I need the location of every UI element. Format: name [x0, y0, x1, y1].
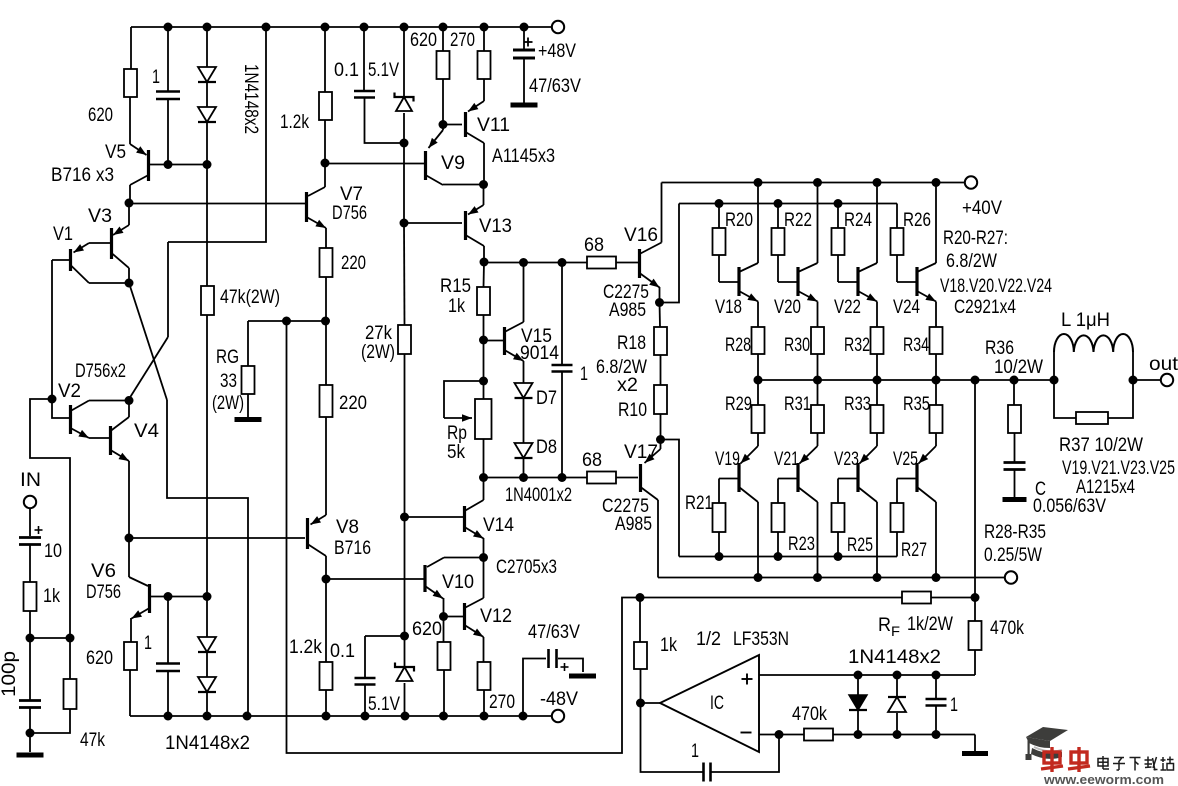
svg-text:V9: V9 — [441, 153, 465, 174]
svg-text:V19: V19 — [715, 449, 740, 470]
wire input node — [30, 637, 70, 639]
transistor V1 — [74, 243, 90, 253]
resistor R33 — [876, 380, 878, 405]
node IC output — [636, 699, 645, 708]
resistor R37 10/2W parallel — [1054, 380, 1076, 418]
svg-text:V25: V25 — [893, 449, 918, 470]
wire +40V rail — [662, 182, 966, 184]
wire feedback RF — [640, 597, 902, 599]
svg-text:1N4001x2: 1N4001x2 — [505, 485, 572, 506]
node V11 base — [439, 120, 448, 129]
node V1/V2 base — [48, 395, 57, 404]
watermark cap icon — [1026, 727, 1069, 760]
resistor 620 V6 emitter — [124, 642, 137, 670]
zener 5.1V bottom — [404, 636, 406, 667]
svg-text:0.25/5W: 0.25/5W — [984, 545, 1042, 566]
svg-text:620: 620 — [88, 105, 113, 126]
wire bias column lower — [404, 517, 406, 636]
transistor V16 — [638, 249, 641, 278]
svg-text:R35: R35 — [903, 394, 930, 415]
node base rail x719 — [715, 199, 724, 208]
transistor V5 — [130, 144, 147, 155]
node -48V rail x207 — [203, 712, 212, 721]
wire IC +input — [759, 674, 975, 676]
svg-text:R15: R15 — [440, 276, 471, 297]
svg-text:5.1V: 5.1V — [368, 60, 399, 81]
svg-text:R32: R32 — [844, 335, 870, 356]
node x562 y262 — [558, 258, 567, 267]
node +40V rail x877 — [873, 178, 882, 187]
wire -40V rail — [658, 577, 1005, 579]
node -40V rail x877 — [873, 573, 882, 582]
node -48V rail x365 — [361, 712, 370, 721]
svg-text:C2921x4: C2921x4 — [954, 297, 1016, 318]
svg-text:9014: 9014 — [520, 343, 559, 364]
resistor 1k IC output — [639, 598, 641, 643]
node -40V rail x758 — [754, 573, 763, 582]
wire IC -input — [759, 734, 804, 736]
wire output rail — [758, 379, 1054, 381]
wire V7 emitter node to RG — [248, 320, 326, 322]
svg-text:D7: D7 — [536, 388, 557, 409]
watermark text chongchong — [1041, 747, 1063, 772]
node R15 top — [480, 258, 489, 267]
node VAS drive — [125, 534, 134, 543]
svg-text:270: 270 — [450, 30, 475, 51]
terminal out — [1161, 374, 1173, 386]
node lower drive rail x838 — [834, 552, 843, 561]
wire X diagonal A — [129, 283, 167, 400]
resistor 68 lower — [587, 472, 616, 484]
wire 0.1 bottom link — [365, 635, 405, 637]
svg-text:R27: R27 — [901, 540, 927, 561]
svg-text:5k: 5k — [447, 442, 465, 463]
resistor 68 upper — [587, 257, 616, 269]
node output rail x936 — [932, 376, 941, 385]
resistor 270 top — [483, 27, 485, 51]
wire V16 emitter to base rail — [660, 204, 680, 303]
resistor R26 — [896, 204, 898, 229]
node base rail x838 — [834, 199, 843, 208]
svg-text:out: out — [1149, 354, 1178, 375]
node bias top — [400, 139, 409, 148]
svg-text:1: 1 — [144, 633, 152, 654]
svg-text:100p: 100p — [0, 651, 20, 697]
svg-text:A985: A985 — [609, 300, 646, 321]
node -48V rail x484 — [480, 712, 489, 721]
svg-text:V5: V5 — [105, 142, 126, 163]
resistor R29 — [757, 380, 759, 405]
svg-text:V12: V12 — [480, 606, 512, 627]
terminal IN — [24, 496, 36, 508]
node top rail x207 — [203, 23, 212, 32]
svg-text:R23: R23 — [788, 534, 815, 555]
svg-text:B716: B716 — [334, 538, 371, 559]
svg-text:+40V: +40V — [962, 198, 1002, 219]
resistor R15 1k — [483, 262, 486, 287]
node cap bottom — [932, 730, 941, 739]
svg-text:27k: 27k — [365, 323, 392, 344]
resistor 47k(2W) — [206, 164, 208, 286]
transistor V9 — [429, 130, 444, 148]
svg-text:1k: 1k — [448, 296, 465, 317]
svg-text:A1145x3: A1145x3 — [492, 146, 555, 167]
node V15 base — [479, 336, 488, 345]
node V10 collector — [479, 553, 488, 562]
svg-text:R20: R20 — [725, 210, 753, 231]
svg-text:220: 220 — [339, 393, 367, 414]
node lower drive rail x778 — [774, 552, 783, 561]
svg-text:33: 33 — [220, 371, 237, 392]
node top rail x404 — [400, 23, 409, 32]
node bias bottom — [400, 632, 409, 641]
svg-text:D8: D8 — [536, 437, 557, 458]
svg-text:D756x2: D756x2 — [75, 361, 126, 382]
ground top filter — [511, 103, 538, 108]
wire feedback tap — [974, 380, 976, 598]
svg-text:L 1μH: L 1μH — [1061, 310, 1110, 331]
svg-text:1.2k: 1.2k — [280, 112, 309, 133]
svg-text:(2W): (2W) — [212, 393, 244, 414]
svg-text:V24: V24 — [893, 297, 920, 318]
svg-text:1k: 1k — [43, 586, 60, 607]
svg-text:47k: 47k — [80, 730, 105, 751]
node L x1054 — [1050, 376, 1059, 385]
capacitor 1 top-left — [167, 27, 169, 91]
svg-text:1N4148x2: 1N4148x2 — [848, 647, 941, 668]
svg-text:V17: V17 — [624, 442, 658, 463]
svg-text:V16: V16 — [624, 225, 658, 246]
svg-text:V1: V1 — [53, 224, 73, 245]
wire bias column upper — [403, 143, 405, 223]
node D8 bottom — [519, 473, 528, 482]
resistor 620 top-left — [130, 27, 132, 69]
wire x266 column from rail — [168, 27, 266, 242]
resistor R21 — [719, 478, 738, 480]
svg-text:10/2W: 10/2W — [994, 357, 1043, 378]
node Rp bottom — [479, 473, 488, 482]
ground bottom filter — [569, 674, 596, 679]
svg-text:V4: V4 — [134, 421, 159, 442]
svg-text:0.1: 0.1 — [330, 641, 355, 662]
svg-text:47/63V: 47/63V — [528, 622, 580, 643]
node diode a top — [854, 671, 863, 680]
svg-text:1.2k: 1.2k — [289, 637, 322, 658]
svg-text:620: 620 — [412, 619, 442, 640]
resistor R36 10/2W — [1013, 380, 1015, 405]
node feedback left — [636, 593, 645, 602]
svg-text:V7: V7 — [340, 184, 363, 205]
resistor R30 — [811, 327, 824, 354]
svg-text:B716 x3: B716 x3 — [51, 165, 114, 186]
resistor R25 — [838, 478, 857, 480]
diode 1N4148 top-left a — [206, 27, 208, 67]
svg-text:68: 68 — [582, 450, 602, 471]
wire input to bases — [30, 399, 70, 638]
svg-text:x2: x2 — [617, 375, 638, 396]
node -40V rail x817 — [813, 573, 822, 582]
wire V11 base — [443, 124, 462, 126]
resistor R32 — [871, 327, 884, 354]
wire V14 base — [405, 516, 464, 518]
node V13 base — [400, 219, 409, 228]
svg-text:6.8/2W: 6.8/2W — [946, 251, 997, 272]
svg-text:Rp: Rp — [447, 423, 467, 444]
wire V15 base to Rp — [483, 340, 485, 399]
capacitor 47/63V top filter — [523, 27, 525, 49]
resistor R35 — [935, 380, 937, 405]
node top rail x266 — [262, 23, 271, 32]
wire bias bottom rail — [484, 477, 588, 479]
transistor V24 — [897, 281, 916, 283]
svg-text:1/2: 1/2 — [696, 629, 721, 650]
transistor V2 — [52, 399, 70, 418]
resistor 470k right — [974, 598, 976, 622]
node R36 x1014 — [1010, 376, 1019, 385]
resistor RG 33(2W) — [247, 321, 249, 366]
terminal -40V — [1005, 571, 1017, 583]
node output rail x877 — [873, 376, 882, 385]
capacitor 1 inter-driver — [561, 262, 563, 364]
node x207 y164 — [203, 160, 212, 169]
wire V9 base — [325, 163, 424, 165]
transistor V19 — [741, 446, 759, 464]
resistor 1k input — [24, 582, 37, 611]
resistor R10 — [654, 385, 667, 414]
wire lower base drive rail — [679, 556, 897, 558]
node top rail x168 — [164, 23, 173, 32]
wire V9 collector — [443, 184, 483, 186]
wire V13 base — [404, 222, 462, 224]
capacitor 0.1 top — [363, 27, 365, 90]
transistor V7 — [324, 163, 326, 187]
svg-text:IN: IN — [20, 470, 41, 491]
node +40V rail x817 — [813, 178, 822, 187]
svg-text:1: 1 — [950, 695, 958, 716]
diode 1N4148 bottom-left a — [206, 596, 208, 637]
svg-text:C2705x3: C2705x3 — [496, 557, 557, 578]
svg-text:220: 220 — [341, 253, 366, 274]
node cap top — [932, 671, 941, 680]
node x168 y164 — [164, 160, 173, 169]
resistor 270 bottom — [478, 662, 491, 690]
resistor R34 — [930, 327, 943, 354]
svg-text:R24: R24 — [844, 210, 872, 231]
svg-text:V2: V2 — [58, 381, 81, 402]
svg-text:-48V: -48V — [540, 689, 578, 710]
svg-text:1: 1 — [152, 67, 160, 88]
diode 1N4148 bottom-left b — [206, 653, 208, 677]
ground input — [29, 733, 31, 752]
resistor 620 bottom mid — [443, 616, 445, 642]
wire -48V rail — [130, 715, 552, 717]
node -48V rail x326 — [322, 712, 331, 721]
capacitor 1 bottom-left — [167, 596, 169, 663]
node input RC — [26, 634, 35, 643]
svg-text:V18.V20.V22.V24: V18.V20.V22.V24 — [940, 276, 1052, 297]
wire x167 down to -rail link — [167, 400, 248, 716]
svg-text:470k: 470k — [990, 618, 1024, 639]
diode 1N4148 IC left — [857, 675, 859, 695]
node 47k top — [66, 634, 75, 643]
capacitor 10 input coupling — [29, 508, 31, 536]
wire V7 base — [129, 203, 305, 205]
resistor 47k input — [69, 638, 71, 679]
ground RG — [235, 417, 262, 422]
node x523 y262 — [519, 258, 528, 267]
wire V12 base — [444, 616, 464, 618]
transistor V14 — [463, 506, 466, 532]
node feedback right — [971, 593, 980, 602]
transistor V13 — [483, 184, 485, 205]
svg-text:R33: R33 — [844, 394, 871, 415]
node V12 base — [439, 612, 448, 621]
resistor R28 — [752, 327, 765, 354]
wiper Rp — [444, 381, 484, 418]
transistor V12 — [463, 603, 466, 630]
wire V5 base node — [150, 164, 207, 166]
resistor 220 lower — [325, 321, 327, 385]
svg-text:F: F — [891, 623, 900, 639]
svg-text:V21: V21 — [774, 449, 799, 470]
wire V10 collector — [444, 557, 484, 559]
svg-text:1N4148x2: 1N4148x2 — [165, 733, 250, 754]
node diode b top — [893, 671, 902, 680]
svg-text:A985: A985 — [615, 514, 652, 535]
svg-text:A1215x4: A1215x4 — [1076, 477, 1135, 498]
resistor 220 upper — [325, 228, 327, 248]
node -48V rail x405 — [401, 712, 410, 721]
svg-text:1N4148x2: 1N4148x2 — [240, 64, 261, 134]
node -48V rail x443 — [439, 712, 448, 721]
svg-text:V11: V11 — [477, 115, 510, 136]
node output rail x817 — [813, 376, 822, 385]
svg-text:V19.V21.V23.V25: V19.V21.V23.V25 — [1062, 458, 1175, 479]
svg-text:(2W): (2W) — [361, 342, 395, 363]
transistor V10 — [423, 565, 426, 592]
node x325 y321 — [321, 317, 330, 326]
node diode b bottom — [893, 730, 902, 739]
node top rail x325 — [321, 23, 330, 32]
diode D8 — [515, 443, 533, 458]
capacitor 1 IC — [935, 675, 937, 698]
svg-text:+48V: +48V — [538, 41, 576, 62]
terminal +40V — [965, 176, 977, 188]
node -40V rail x936 — [932, 573, 941, 582]
node -input — [775, 730, 784, 739]
transistor V25 — [919, 446, 937, 464]
resistor 27k(2W) — [403, 223, 406, 325]
node V17 emitter — [656, 435, 665, 444]
node V10 base drive — [322, 575, 331, 584]
resistor 620 top mid — [442, 27, 444, 51]
svg-text:0.1: 0.1 — [334, 60, 359, 81]
svg-text:470k: 470k — [792, 704, 827, 725]
node x207 y596 — [203, 592, 212, 601]
node +40V rail x936 — [932, 178, 941, 187]
node input gnd — [26, 729, 35, 738]
diode 1N4148 top-left b — [206, 83, 208, 107]
svg-text:RG: RG — [216, 347, 239, 368]
op-amp IC 1/2 LF353N — [660, 655, 759, 752]
svg-text:R20-R27:: R20-R27: — [943, 228, 1008, 249]
resistor 470k -input — [804, 729, 833, 741]
svg-text:R10: R10 — [618, 400, 647, 421]
transistor V21 — [800, 446, 818, 464]
wire upper base drive rail — [679, 203, 897, 205]
wire V1/V3 collectors — [89, 282, 129, 284]
svg-text:V10: V10 — [442, 572, 474, 593]
capacitor C 0.056/63V — [1004, 461, 1026, 464]
resistor R23 — [778, 478, 797, 480]
svg-text:V3: V3 — [88, 206, 112, 227]
transistor V6 — [128, 538, 130, 577]
svg-text:620: 620 — [86, 648, 113, 669]
node -48V rail x523 — [519, 712, 528, 721]
node Rp top — [479, 377, 488, 386]
capacitor 1 integrator — [641, 703, 703, 772]
resistor RF 1k/2W — [902, 592, 931, 604]
node -48V rail x168 — [164, 712, 173, 721]
svg-text:R: R — [878, 615, 891, 636]
diode D7 — [515, 383, 533, 398]
transistor V4 — [109, 426, 112, 455]
wire +48V top rail — [131, 26, 552, 28]
node V2/V4 collectors — [125, 396, 134, 405]
transistor V22 — [838, 281, 857, 283]
svg-text:5.1V: 5.1V — [368, 694, 400, 715]
ground Zobel — [1003, 497, 1027, 502]
node x562 y477 — [558, 473, 567, 482]
svg-text:R28-R35: R28-R35 — [984, 522, 1046, 543]
wire V1 base column — [51, 260, 53, 399]
wire to IC ground — [974, 735, 976, 752]
transistor V20 — [778, 281, 797, 283]
node V9 base drive — [321, 159, 330, 168]
svg-text:R22: R22 — [784, 210, 812, 231]
svg-text:1k/2W: 1k/2W — [907, 614, 953, 635]
ground IC — [962, 751, 988, 756]
node top rail x524 — [520, 23, 529, 32]
capacitor 47/63V bottom filter — [523, 659, 546, 717]
svg-text:V13: V13 — [479, 216, 512, 237]
potentiometer Rp 5k — [475, 399, 492, 439]
node output x1133 — [1129, 376, 1138, 385]
node V13 emitter — [479, 180, 488, 189]
node +40V rail x758 — [754, 178, 763, 187]
svg-text:LF353N: LF353N — [733, 629, 789, 650]
transistor V8 — [311, 515, 327, 525]
node top rail x443 — [439, 23, 448, 32]
svg-text:V22: V22 — [834, 297, 861, 318]
svg-text:1: 1 — [580, 364, 588, 385]
wire V6 base — [150, 596, 207, 598]
resistor R27 — [897, 478, 916, 480]
wire feedback column x287 — [287, 321, 641, 753]
svg-text:1: 1 — [691, 741, 699, 762]
terminal -48V — [552, 710, 564, 722]
wire V3 emitter to node A — [125, 199, 134, 208]
svg-text:10: 10 — [44, 541, 62, 562]
node lower drive rail x719 — [715, 552, 724, 561]
wire X-couple vertical x168 — [167, 242, 169, 337]
svg-text:R29: R29 — [725, 394, 752, 415]
resistor R18 — [659, 302, 662, 327]
node x168 y596 — [164, 592, 173, 601]
svg-text:R37 10/2W: R37 10/2W — [1059, 435, 1143, 456]
node V14 base — [400, 513, 409, 522]
resistor R31 — [817, 380, 819, 405]
